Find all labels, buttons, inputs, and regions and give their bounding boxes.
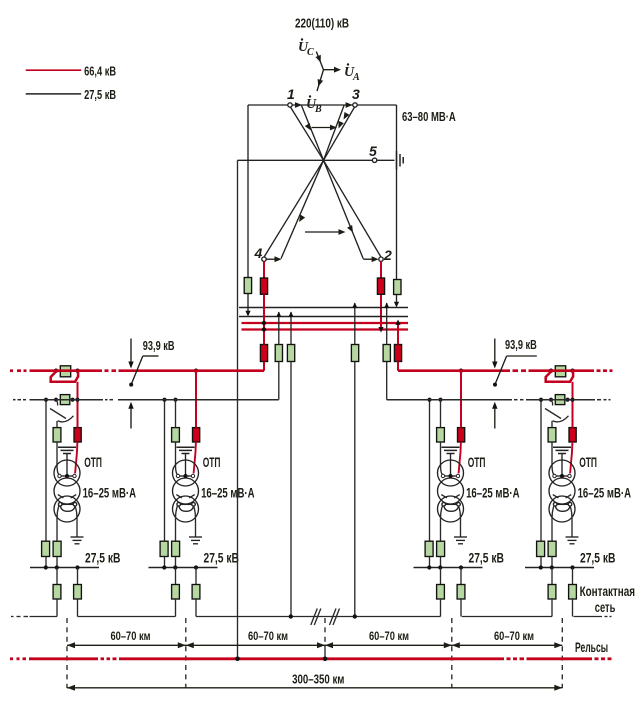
- svg-text:60–70 км: 60–70 км: [494, 629, 534, 643]
- svg-text:Контактная: Контактная: [580, 584, 635, 599]
- svg-text:60–70 км: 60–70 км: [369, 629, 409, 643]
- svg-text:1: 1: [287, 86, 295, 102]
- svg-text:93,9 кВ: 93,9 кВ: [505, 338, 537, 352]
- svg-text:C: C: [307, 47, 314, 58]
- svg-text:60–70 км: 60–70 км: [248, 629, 288, 643]
- svg-text:220(110) кВ: 220(110) кВ: [295, 16, 349, 31]
- svg-text:A: A: [352, 72, 360, 83]
- svg-text:300–350 км: 300–350 км: [292, 671, 344, 686]
- svg-text:60–70 км: 60–70 км: [111, 629, 151, 643]
- svg-text:66,4 кВ: 66,4 кВ: [84, 63, 116, 78]
- svg-text:Рельсы: Рельсы: [575, 640, 608, 655]
- svg-text:сеть: сеть: [595, 600, 616, 615]
- svg-text:27,5 кВ: 27,5 кВ: [84, 87, 116, 102]
- svg-text:2: 2: [383, 247, 392, 263]
- svg-text:63–80 МВ·А: 63–80 МВ·А: [402, 109, 456, 124]
- svg-text:3: 3: [352, 86, 360, 102]
- svg-text:93,9 кВ: 93,9 кВ: [143, 339, 175, 353]
- svg-text:4: 4: [254, 245, 263, 261]
- svg-text:5: 5: [369, 143, 377, 159]
